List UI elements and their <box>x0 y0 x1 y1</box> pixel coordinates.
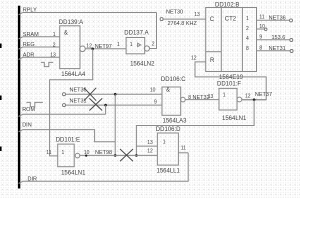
gate U-DD106D box <box>157 133 178 165</box>
wire RPLY <box>19 13 157 15</box>
svg-text:1564LN1: 1564LN1 <box>222 116 247 122</box>
frame tick 3 <box>0 147 2 152</box>
wire NET97 <box>85 48 126 50</box>
svg-text:C: C <box>210 17 215 23</box>
svg-text:1564E19: 1564E19 <box>219 75 244 81</box>
junction dot NET98 at 136 <box>135 154 138 157</box>
svg-text:&: & <box>64 30 68 36</box>
svg-text:2: 2 <box>152 41 155 47</box>
svg-text:11: 11 <box>46 150 51 156</box>
gate U-DD137A box <box>126 38 145 54</box>
node NET31 circle <box>63 104 66 107</box>
wire vertical NET36 to NET98 <box>114 94 116 155</box>
bubble DD139A output <box>80 46 86 52</box>
wire DIN <box>19 130 116 142</box>
wire NET36 <box>66 93 163 95</box>
node NET30 circle <box>160 18 163 21</box>
junction dot NET36 <box>114 93 117 96</box>
svg-text:DIN: DIN <box>22 122 32 128</box>
svg-text:8: 8 <box>246 46 249 52</box>
svg-text:NET37: NET37 <box>255 92 272 98</box>
svg-text:1564LL1: 1564LL1 <box>157 169 181 175</box>
svg-text:12: 12 <box>86 43 92 49</box>
wire ADR <box>19 57 60 59</box>
svg-text:2: 2 <box>246 26 249 32</box>
gate U-DD139A box <box>60 26 80 69</box>
wire NET32 <box>185 99 219 101</box>
wire NET31 branch to ROM line <box>105 105 107 114</box>
svg-text:1: 1 <box>117 42 120 48</box>
svg-text:NET98: NET98 <box>95 150 112 156</box>
wire DD137A output to RPLY <box>150 13 157 49</box>
svg-text:13: 13 <box>50 52 56 58</box>
svg-text:10: 10 <box>150 87 156 93</box>
svg-text:13: 13 <box>147 140 153 146</box>
svg-text:NET31: NET31 <box>269 46 286 52</box>
frame tick 2 <box>0 96 2 101</box>
svg-text:1564LN2: 1564LN2 <box>130 61 155 67</box>
svg-text:ADR: ADR <box>23 53 35 59</box>
svg-text:1: 1 <box>223 93 226 99</box>
svg-text:1564LN1: 1564LN1 <box>61 170 86 176</box>
svg-text:RPLY: RPLY <box>23 8 37 14</box>
svg-text:9: 9 <box>154 100 157 106</box>
wire DD106D output <box>178 152 188 154</box>
node NET36 circle <box>63 93 66 96</box>
svg-text:R: R <box>210 58 215 64</box>
svg-text:DD106:C: DD106:C <box>161 77 186 83</box>
X marker NET31 <box>89 98 102 110</box>
wire pin 12 R to NET37 <box>195 62 266 100</box>
svg-text:1: 1 <box>246 16 249 22</box>
junction dot NET37 <box>253 98 256 101</box>
svg-text:DD106:D: DD106:D <box>156 127 181 133</box>
svg-text:DIR: DIR <box>28 176 38 182</box>
svg-text:NET97: NET97 <box>95 44 112 50</box>
bubble DD137A output <box>144 46 149 51</box>
svg-text:12: 12 <box>191 55 197 61</box>
svg-text:DD139:A: DD139:A <box>59 20 83 26</box>
svg-text:1: 1 <box>62 150 65 156</box>
svg-text:1: 1 <box>130 42 133 48</box>
svg-text:1: 1 <box>53 32 56 38</box>
junction dot NET98 at 115 <box>114 154 117 157</box>
wire DIR <box>19 153 189 184</box>
gate U-DD101E box <box>58 144 74 167</box>
gate U-DD106C box <box>162 87 181 115</box>
svg-text:1564LA3: 1564LA3 <box>163 119 188 125</box>
wire NET37 <box>242 99 266 101</box>
pulse symbol near ADR <box>41 62 53 66</box>
junction dot NET97 branch <box>91 48 94 51</box>
svg-text:SRAM: SRAM <box>23 32 39 38</box>
svg-text:8: 8 <box>259 46 262 52</box>
svg-text:4: 4 <box>246 36 249 42</box>
svg-text:&: & <box>166 87 170 93</box>
bubble DD101E output <box>75 153 80 158</box>
svg-text:DD101:F: DD101:F <box>217 82 241 88</box>
svg-text:NET30: NET30 <box>166 10 183 16</box>
wire pin 10 stub <box>257 28 268 31</box>
svg-text:NET31: NET31 <box>70 99 87 105</box>
svg-text:12: 12 <box>147 149 153 155</box>
svg-text:153.6: 153.6 <box>272 35 286 41</box>
bubble DD106C output <box>181 97 186 102</box>
svg-text:DD101:E: DD101:E <box>56 138 80 144</box>
wire REG <box>19 47 60 49</box>
wire NET31 <box>66 104 163 106</box>
wire NET97 branch down to DD101E <box>50 49 93 156</box>
svg-text:13: 13 <box>194 12 200 18</box>
svg-text:CT2: CT2 <box>225 17 237 23</box>
svg-text:11: 11 <box>181 145 186 151</box>
svg-text:2764.8 KHZ: 2764.8 KHZ <box>168 21 198 27</box>
wire NET98 <box>80 154 158 156</box>
wire SRAM <box>19 37 60 39</box>
svg-text:10: 10 <box>259 24 265 30</box>
wire pin 9 153.6 out <box>257 39 293 42</box>
svg-text:1564LA4: 1564LA4 <box>61 72 86 78</box>
svg-text:NET36: NET36 <box>269 16 286 22</box>
svg-text:DD137.A: DD137.A <box>124 31 148 37</box>
bubble DD101F output <box>237 97 242 102</box>
wire NET30 <box>163 18 206 20</box>
svg-text:REG: REG <box>23 42 35 48</box>
wire branch to pin 13 DD106D <box>136 145 157 147</box>
junction dot NET31 <box>104 104 107 107</box>
gate U-DD101F box <box>219 88 237 110</box>
svg-text:13: 13 <box>208 94 214 100</box>
wire NET37 down and left <box>136 100 254 156</box>
wire pin 8 NET31 out <box>257 50 294 53</box>
wire pin 11 NET36 out <box>257 19 293 22</box>
wire ROM <box>19 114 106 116</box>
bus <box>18 6 20 189</box>
X marker NET98 <box>120 149 133 161</box>
svg-text:ROM: ROM <box>22 107 35 113</box>
svg-text:8: 8 <box>188 95 191 101</box>
svg-text:11: 11 <box>259 15 264 21</box>
svg-text:9: 9 <box>259 35 262 41</box>
X marker NET36 <box>84 88 96 101</box>
svg-text:DD102:B: DD102:B <box>215 3 239 9</box>
svg-text:2: 2 <box>53 42 56 48</box>
frame tick 1 <box>0 44 2 49</box>
svg-text:12: 12 <box>245 94 251 100</box>
pulse symbol near ROM <box>27 102 43 106</box>
junction dot DD101E output <box>85 155 87 157</box>
svg-text:1: 1 <box>163 139 166 145</box>
counter U-DD102B box <box>206 8 257 72</box>
